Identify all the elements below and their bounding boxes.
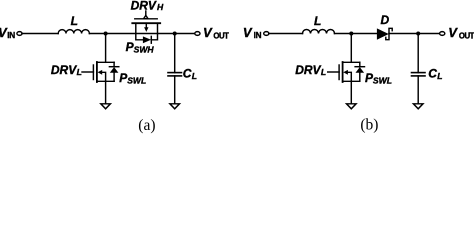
label VOUT (b)	[448, 25, 474, 40]
transistor low-side NMOS channel (a)	[96, 62, 98, 82]
capacitor C_L bottom plate (b)	[412, 75, 426, 77]
svg-text:D: D	[381, 13, 390, 27]
svg-text:SWH: SWH	[134, 44, 155, 54]
node SW junction dot (b)	[349, 32, 353, 36]
body diode P_SWL triangle (a)	[110, 67, 119, 73]
ground low-side FET (b)	[347, 104, 357, 109]
ground capacitor (a)	[170, 104, 180, 109]
label VIN (a)	[0, 25, 15, 40]
node VOUT junction dot (b)	[416, 32, 420, 36]
label P_SWL (a)	[119, 71, 146, 86]
body diode P_SWL cathode bar (a)	[109, 66, 118, 68]
ground capacitor (b)	[413, 104, 423, 109]
high-side PMOS drain stub (a)	[157, 23, 159, 33]
transistor low-side NMOS bulk arrow (b)	[343, 70, 348, 75]
terminal VOUT (b)	[440, 32, 445, 36]
body diode P_SWH triangle (a)	[143, 36, 151, 43]
high-side PMOS channel (a)	[132, 22, 160, 24]
label P_SWL (b)	[365, 71, 392, 86]
capacitor C_L top plate (b)	[412, 72, 426, 74]
capacitor C_L bottom plate (a)	[168, 75, 182, 77]
label C_L (b)	[428, 67, 442, 81]
body diode P_SWH cathode bar (a)	[150, 36, 152, 43]
high-side PMOS gate stub from DRV_H (a)	[145, 11, 147, 16]
terminal VIN (b)	[264, 32, 269, 36]
svg-text:C: C	[183, 66, 192, 80]
svg-text:DRV: DRV	[51, 63, 77, 77]
body diode P_SWL anode lead (b)	[359, 73, 361, 82]
transistor low-side NMOS gate lead (b)	[328, 71, 339, 73]
high-side PMOS source stub (a)	[135, 23, 137, 33]
high-side PMOS gate buffer triangle (a)	[144, 15, 148, 18]
svg-text:L: L	[77, 67, 82, 77]
label C_L (a)	[183, 66, 197, 81]
svg-text:L: L	[71, 14, 78, 28]
svg-text:V: V	[448, 25, 458, 40]
transistor low-side NMOS drain stub (a)	[97, 61, 114, 63]
schottky diode D triangle (b)	[377, 28, 389, 39]
body diode P_SWL cathode lead (a)	[113, 62, 115, 66]
wire inductor to diode anode (b)	[335, 33, 378, 35]
node VOUT junction dot (a)	[173, 32, 177, 36]
transistor low-side NMOS channel (b)	[342, 62, 344, 82]
svg-text:L: L	[321, 67, 326, 77]
label DRV_H (a)	[131, 0, 164, 12]
transistor low-side NMOS bulk lead (b)	[348, 72, 352, 81]
transistor low-side NMOS gate plate (a)	[92, 65, 94, 80]
high-side PMOS bulk lead (a)	[145, 23, 147, 27]
wire SW down to low-side FET drain (a)	[105, 34, 107, 63]
label VOUT (a)	[203, 25, 229, 40]
terminal VIN (a)	[17, 32, 22, 36]
svg-text:V: V	[243, 25, 253, 40]
svg-text:C: C	[428, 67, 437, 81]
body diode P_SWH left leg (a)	[136, 34, 143, 40]
body diode P_SWL triangle (b)	[356, 67, 365, 73]
capacitor C_L top plate (a)	[168, 72, 182, 74]
high-side PMOS gate plate (a)	[135, 18, 157, 20]
transistor low-side NMOS source stub (a)	[97, 80, 114, 82]
body diode P_SWL cathode bar (b)	[355, 66, 364, 68]
svg-text:IN: IN	[254, 31, 262, 40]
svg-text:L: L	[437, 71, 442, 81]
high-side PMOS bulk arrow (a)	[144, 27, 148, 32]
label P_SWH (a)	[126, 40, 155, 54]
node SW junction dot (a)	[104, 32, 108, 36]
svg-text:DRV: DRV	[131, 0, 157, 12]
svg-text:OUT: OUT	[459, 32, 474, 41]
label DRV_L (b)	[295, 63, 326, 77]
svg-text:SWL: SWL	[127, 76, 146, 86]
wire source to ground (b)	[350, 81, 352, 104]
wire diode to VOUT (b)	[389, 33, 440, 35]
svg-text:L: L	[314, 14, 321, 28]
inductor L2 (b)	[303, 30, 335, 34]
body diode P_SWH right leg (a)	[151, 34, 157, 40]
schottky diode D cathode bar (b)	[386, 28, 392, 39]
terminal VOUT (a)	[195, 32, 200, 36]
wire capacitor to ground (b)	[417, 76, 419, 104]
label VIN (b)	[243, 25, 262, 40]
svg-text:L: L	[192, 71, 197, 81]
wire source to ground (a)	[105, 81, 107, 104]
transistor low-side NMOS gate plate (b)	[338, 65, 340, 80]
body diode P_SWL anode lead (a)	[113, 73, 115, 82]
svg-text:(a): (a)	[138, 117, 155, 134]
svg-text:DRV: DRV	[295, 63, 321, 77]
svg-text:SWL: SWL	[373, 76, 392, 86]
wire capacitor to ground (a)	[174, 76, 176, 104]
svg-text:OUT: OUT	[213, 32, 229, 41]
svg-text:(b): (b)	[360, 117, 378, 134]
transistor low-side NMOS source stub (b)	[343, 80, 360, 82]
svg-text:V: V	[203, 25, 213, 40]
svg-text:IN: IN	[7, 31, 15, 40]
wire VOUT node to capacitor (b)	[417, 34, 419, 73]
inductor L1 (a)	[58, 30, 89, 34]
svg-text:H: H	[157, 2, 164, 12]
wire inductor through node SW to VOUT terminal (a)	[89, 33, 195, 35]
transistor low-side NMOS bulk arrow (a)	[98, 70, 103, 75]
transistor low-side NMOS bulk lead (a)	[102, 72, 106, 81]
ground low-side FET (a)	[101, 104, 111, 109]
label DRV_L (a)	[51, 63, 82, 77]
wire SW down to low-side FET drain (b)	[350, 34, 352, 63]
wire VIN to inductor (a)	[22, 33, 58, 35]
wire VOUT node to capacitor (a)	[174, 34, 176, 73]
transistor low-side NMOS gate lead (a)	[82, 71, 93, 73]
transistor low-side NMOS drain stub (b)	[343, 61, 360, 63]
wire VIN to inductor (b)	[269, 33, 303, 35]
body diode P_SWL cathode lead (b)	[359, 62, 361, 66]
